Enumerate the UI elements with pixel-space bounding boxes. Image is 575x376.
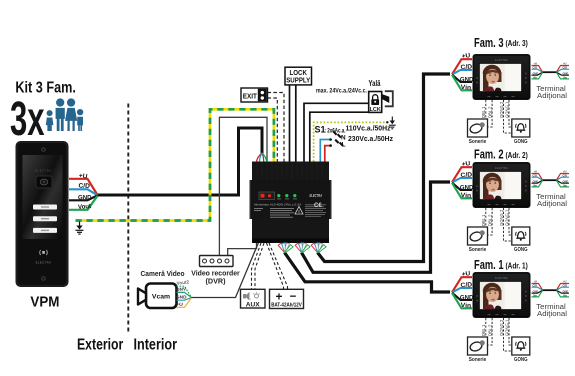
DVR box xyxy=(191,256,240,286)
svg-text:ELECTRA: ELECTRA xyxy=(36,261,52,265)
wires: EXIT dashed xyxy=(268,93,285,162)
svg-text:Fam. 1: Fam. 1 xyxy=(474,257,504,272)
wires: to Yala xyxy=(304,103,369,161)
svg-text:Exterior: Exterior xyxy=(77,336,123,353)
svg-text:Vout: Vout xyxy=(78,203,92,211)
unit bottom breakout fans (3 bundles) xyxy=(278,243,326,253)
svg-text:Vcam: Vcam xyxy=(152,294,170,301)
wire: mains L red xyxy=(325,146,330,162)
svg-text:110Vc.a./50Hz: 110Vc.a./50Hz xyxy=(346,123,391,132)
Yala box xyxy=(369,78,393,113)
BAT box xyxy=(270,289,304,308)
ground symbol mains xyxy=(389,117,396,129)
LED cluster xyxy=(259,192,275,200)
svg-text:(DVR): (DVR) xyxy=(206,277,227,286)
svg-text:(Adr. 1): (Adr. 1) xyxy=(506,262,529,271)
svg-text:GND: GND xyxy=(176,294,187,299)
svg-text:ELECTRA: ELECTRA xyxy=(35,169,51,173)
wires: dashed to AUX xyxy=(252,243,288,289)
wire: mains earth dotted xyxy=(314,122,388,161)
svg-text:Cameră Video: Cameră Video xyxy=(141,269,186,278)
wire C/D (blue stripe) xyxy=(69,189,98,195)
wire: VPM bus to central unit xyxy=(98,128,263,195)
switch S1 strokes xyxy=(333,131,343,146)
svg-text:C/D: C/D xyxy=(78,182,90,190)
svg-text:ELECTRA: ELECTRA xyxy=(310,193,323,198)
svg-text:SUPPLY: SUPPLY xyxy=(286,76,310,85)
svg-text:(Adr. 3): (Adr. 3) xyxy=(506,39,529,48)
svg-text:(Adr. 2): (Adr. 2) xyxy=(506,151,529,160)
wire Vout (green stripe) xyxy=(69,196,98,210)
svg-text:Fam. 2: Fam. 2 xyxy=(474,147,504,162)
wire: DVR video loop xyxy=(219,117,267,256)
family icons xyxy=(46,98,83,131)
monitor Fam.3 xyxy=(452,35,569,145)
svg-text:VPM: VPM xyxy=(30,294,59,311)
svg-text:N: N xyxy=(341,134,346,141)
wire: mains N blue xyxy=(320,140,329,162)
svg-text:230Vc.a./50Hz: 230Vc.a./50Hz xyxy=(348,134,393,143)
wire: earth green/yellow xyxy=(76,109,274,220)
svg-text:Alimentator ALS-4DIN 24Vc.c.: Alimentator ALS-4DIN 24Vc.c./1.5A xyxy=(254,202,301,206)
monitor Fam.1 xyxy=(452,257,569,363)
svg-text:Interior: Interior xyxy=(134,336,178,353)
camera xyxy=(138,269,185,308)
VPM panel xyxy=(16,141,69,311)
svg-text:max. 24Vc.a./24Vc.c.: max. 24Vc.a./24Vc.c. xyxy=(316,88,367,95)
svg-text:Yală: Yală xyxy=(369,78,381,88)
AUX box xyxy=(241,289,266,308)
VPM wire labels xyxy=(69,172,98,211)
unit top colour fan (VPM bus breakout) xyxy=(257,153,267,162)
wire GND (black stripe) xyxy=(69,195,98,200)
svg-text:BAT-42Ah/12V: BAT-42Ah/12V xyxy=(271,303,302,309)
exterior/interior divider xyxy=(77,104,177,354)
svg-text:Fam. 3: Fam. 3 xyxy=(474,35,504,50)
striker xyxy=(385,91,393,106)
svg-text:3x: 3x xyxy=(10,92,45,146)
svg-text:AUX: AUX xyxy=(246,301,261,308)
camera wire labels xyxy=(176,279,192,307)
svg-text:LCK: LCK xyxy=(370,107,381,113)
central unit xyxy=(250,162,332,244)
wires: lock supply xyxy=(289,85,291,162)
svg-text:C€: C€ xyxy=(314,203,322,209)
svg-text:GND: GND xyxy=(78,194,92,201)
svg-text:EXIT: EXIT xyxy=(243,91,257,100)
wire +U (red stripe) xyxy=(69,179,98,195)
monitor Fam.2 xyxy=(452,147,569,253)
svg-text:+U: +U xyxy=(78,172,88,180)
ground symbol at VPM xyxy=(76,222,84,235)
svg-text:+U: +U xyxy=(176,301,184,307)
svg-text:,: , xyxy=(250,295,251,301)
wire: camera to unit xyxy=(191,243,259,298)
wires: monitor feeds xyxy=(318,74,451,262)
svg-text:−: − xyxy=(290,291,297,303)
LOCK SUPPLY box xyxy=(285,67,312,85)
EXIT box xyxy=(241,88,268,102)
wire: DVR to unit bottom xyxy=(228,243,257,257)
svg-text:L: L xyxy=(342,142,346,149)
